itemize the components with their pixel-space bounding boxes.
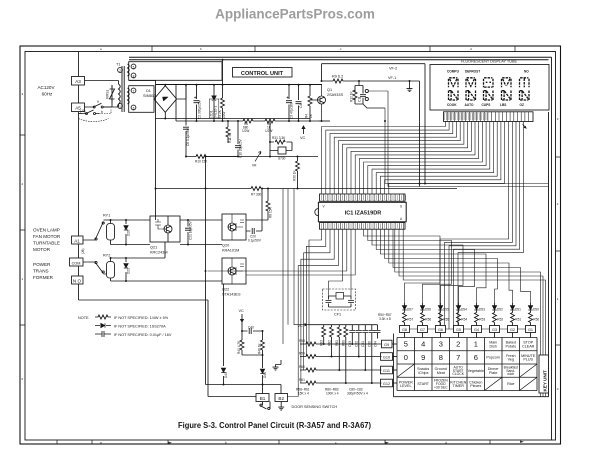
key strobe diode D53 [476, 303, 478, 313]
svg-text:BreakfastSand-wich: BreakfastSand-wich [504, 365, 518, 376]
svg-text:NO: NO [524, 70, 529, 74]
svg-text:NOTE.: NOTE. [78, 316, 90, 320]
svg-text:DinnerPlate: DinnerPlate [488, 367, 500, 375]
svg-text:POWER: POWER [33, 262, 51, 267]
border zone letters [22, 47, 559, 444]
key strobe resistor R52 [493, 313, 497, 323]
key strobe resistor R55 [439, 313, 443, 323]
svg-text:IF NOT SPECIFIED: 1/4W ± 5%: IF NOT SPECIFIED: 1/4W ± 5% [114, 316, 169, 320]
grid driver G7 [418, 326, 428, 333]
VC net arrow down [241, 314, 244, 331]
cap C4 [298, 85, 300, 122]
control unit boundary right double line [549, 57, 552, 440]
capacitor array C80-C83 [352, 325, 377, 383]
wire NO terminal routed to door switch net [79, 284, 209, 397]
svg-text:R12 1K: R12 1K [350, 90, 354, 102]
svg-text:ChickenPieces: ChickenPieces [469, 380, 482, 388]
svg-text:POWERLEVEL: POWERLEVEL [399, 380, 413, 388]
svg-text:IF NOT SPECIFIED: 0.01μF / 16: IF NOT SPECIFIED: 0.01μF / 16V [114, 333, 172, 337]
svg-text:R7 330: R7 330 [251, 193, 262, 197]
svg-text:KRA101M: KRA101M [222, 249, 239, 253]
svg-text:C2 330μ/25V: C2 330μ/25V [198, 99, 202, 119]
cap C10 20u/25V [237, 121, 239, 157]
svg-text:OZ: OZ [520, 103, 524, 107]
svg-text:R30 1K: R30 1K [293, 169, 297, 181]
svg-text:C6 0.1μ/56V: C6 0.1μ/56V [186, 127, 190, 146]
svg-text:C40: C40 [248, 326, 254, 330]
ground at VF1 right [409, 81, 411, 86]
svg-text:G4: G4 [474, 328, 479, 332]
svg-text:R50: R50 [533, 318, 539, 322]
svg-text:RY1: RY1 [103, 214, 110, 218]
svg-text:D54: D54 [461, 308, 467, 312]
left input bus wire [78, 52, 80, 237]
svg-text:D41: D41 [224, 372, 228, 378]
diode D41 [223, 284, 225, 385]
RY2 contact [83, 262, 107, 274]
svg-text:D55: D55 [443, 308, 449, 312]
diode D20 [125, 220, 127, 245]
svg-text:(J6): (J6) [81, 249, 85, 255]
key matrix blank diagonals [397, 364, 537, 391]
svg-text:(J1): (J1) [80, 109, 86, 113]
key strobe diode D51 [512, 303, 514, 313]
svg-text:R56: R56 [425, 318, 431, 322]
key strobe diode D55 [440, 303, 442, 313]
RY1 coil [107, 224, 115, 241]
resistor array R80-R83 [324, 325, 346, 383]
svg-text:2: 2 [22, 182, 24, 186]
svg-text:R11 51: R11 51 [228, 133, 232, 143]
svg-text:Rice: Rice [507, 382, 514, 386]
varistor WRS1 [110, 85, 115, 103]
terminal B1 [256, 394, 269, 402]
transistor Q1 2SA933S [318, 96, 326, 104]
svg-text:D51: D51 [515, 308, 521, 312]
key unit boundary [394, 334, 549, 397]
border zone arrow marks [168, 441, 524, 444]
sense row R59 [300, 356, 382, 358]
terminal B2 [275, 394, 288, 402]
svg-text:D50: D50 [533, 308, 539, 312]
svg-text:A1: A1 [74, 239, 80, 244]
svg-text:AUTOSTARTCLOCK: AUTOSTARTCLOCK [452, 365, 464, 376]
svg-text:4: 4 [421, 340, 425, 349]
RY2 coil [107, 262, 115, 279]
svg-text:C3 47μ/16V: C3 47μ/16V [290, 101, 294, 119]
svg-text:DEFROST: DEFROST [465, 70, 480, 74]
bridge rectifier D1 SIM810 [154, 86, 177, 113]
svg-text:MINUTEPLUS: MINUTEPLUS [521, 354, 536, 362]
pin circle 5 [131, 64, 136, 69]
svg-text:1: 1 [22, 277, 24, 281]
junction dots upper mid [222, 59, 427, 185]
terminal A3 [72, 77, 85, 86]
svg-text:COOK: COOK [447, 103, 457, 107]
VC bus line [308, 324, 378, 326]
svg-text:SIM810: SIM810 [143, 94, 156, 98]
svg-text:G6: G6 [438, 328, 443, 332]
svg-text:Vegetable: Vegetable [468, 369, 484, 373]
transformer terminal circle 1 [118, 104, 123, 109]
svg-text:C21 16μ/35V: C21 16μ/35V [189, 220, 193, 240]
grid driver G1 [526, 326, 536, 333]
junction wire to B terminals [206, 385, 282, 394]
grid driver G9 [382, 340, 393, 348]
C11 small component [362, 87, 364, 104]
svg-text:N O: N O [73, 279, 82, 284]
resistor R3 2K 1/2W [222, 60, 224, 121]
fluorescent display tube box [430, 65, 549, 111]
door switch ground [278, 405, 284, 411]
sheet inner border frame [25, 52, 556, 441]
capacitor array tiny labels [348, 341, 377, 347]
svg-text:8: 8 [439, 353, 443, 362]
grid driver G12 [381, 379, 393, 387]
sense row R60 [300, 369, 382, 371]
svg-text:AC120V: AC120V [37, 85, 55, 90]
transformer T1 primary winding [103, 81, 119, 108]
svg-text:V: V [323, 205, 326, 209]
terminal NO [72, 276, 84, 284]
svg-text:CONTROL UNIT: CONTROL UNIT [241, 71, 284, 77]
svg-text:2: 2 [456, 340, 460, 349]
grid driver leads [405, 323, 531, 338]
svg-text:Q21: Q21 [150, 246, 157, 250]
svg-text:R57: R57 [407, 318, 413, 322]
wire IC to CF1 resonator [329, 229, 352, 296]
svg-text:G1: G1 [528, 328, 533, 332]
svg-text:G9: G9 [384, 343, 389, 347]
svg-text:BakedPotato: BakedPotato [505, 341, 516, 349]
svg-text:1/2W: 1/2W [242, 129, 249, 133]
svg-text:COM: COM [72, 262, 81, 266]
svg-text:R80: R80 [342, 340, 346, 346]
svg-text:IF NOT SPECIFIED: 1SS270A: IF NOT SPECIFIED: 1SS270A [114, 325, 166, 329]
svg-text:STA143ES: STA143ES [222, 293, 241, 297]
wire from C11 group down right [355, 104, 385, 108]
bridge output wires [165, 85, 186, 119]
svg-text:B1: B1 [260, 396, 266, 401]
svg-text:S730: S730 [278, 157, 286, 161]
secondary box lower (rectifier winding) [129, 86, 154, 113]
terminal COM [70, 258, 84, 266]
svg-text:0: 0 [404, 353, 408, 362]
KEY UNIT label box [539, 355, 549, 393]
svg-text:330pF/50V x 4: 330pF/50V x 4 [347, 392, 368, 396]
wire VC feed down [283, 189, 308, 345]
svg-text:R9 6.2: R9 6.2 [332, 75, 343, 79]
svg-text:AppliancePartsPros.com: AppliancePartsPros.com [215, 7, 375, 22]
svg-text:6: 6 [133, 106, 135, 110]
key strobe resistor R57 [403, 313, 407, 323]
svg-text:d: d [470, 47, 472, 51]
driver Q20 KRA101M [222, 214, 246, 240]
svg-text:2SA933S: 2SA933S [327, 93, 344, 97]
transformer T1 core [122, 66, 124, 112]
wire door net to B1 [208, 396, 256, 398]
svg-text:60Hz: 60Hz [42, 92, 53, 97]
svg-text:7: 7 [456, 353, 460, 362]
svg-text:Figure S-3. Control Panel Circ: Figure S-3. Control Panel Circuit (R-3A5… [178, 421, 371, 430]
CONTROL UNIT label box [233, 68, 293, 78]
svg-text:B2: B2 [278, 396, 284, 401]
row junction dots [323, 343, 373, 384]
cap C6 0.1u/56V [185, 85, 187, 157]
wire bundle IC bottom to key diode columns [364, 229, 531, 303]
vertical x176 [175, 85, 177, 122]
svg-text:1: 1 [474, 340, 478, 349]
border zone ticks bottom [57, 440, 490, 444]
svg-text:Snacks/Chips: Snacks/Chips [417, 367, 429, 375]
svg-text:G10: G10 [383, 356, 390, 360]
svg-text:R58: R58 [299, 339, 305, 343]
svg-text:FLUORESCENT DISPLAY TUBE: FLUORESCENT DISPLAY TUBE [461, 60, 518, 64]
RY1 contact [83, 220, 150, 240]
vcc rail y121 [176, 120, 318, 122]
control unit boundary top double line [129, 57, 552, 60]
svg-text:R8 15K: R8 15K [269, 206, 273, 218]
IC bottom pin strip [320, 223, 406, 230]
border zone ticks right [556, 157, 561, 345]
grid driver G8 [400, 326, 410, 333]
cap C2 330u/25V [196, 85, 198, 122]
terminal A5 [72, 103, 85, 112]
wire bundle IC bottom left to sense rows [287, 229, 338, 396]
svg-text:R82: R82 [327, 340, 331, 346]
digit segments row 2 [449, 91, 530, 101]
svg-text:VC: VC [298, 324, 304, 328]
svg-text:LBS: LBS [500, 103, 506, 107]
CF1 crystal element [336, 293, 344, 300]
svg-text:R81: R81 [335, 340, 339, 346]
dc minus rail [156, 118, 311, 120]
svg-text:8: 8 [133, 74, 135, 78]
svg-text:START: START [417, 382, 429, 386]
cap C20 0.1u/50V [246, 189, 262, 232]
VF-1 wire [322, 81, 420, 187]
svg-text:G5: G5 [456, 328, 461, 332]
key strobe diode D54 [458, 303, 460, 313]
key strobe diode D56 [422, 303, 424, 313]
display connector strip [444, 112, 534, 122]
svg-text:MainDish: MainDish [489, 341, 497, 349]
resistor R5 1K 1/2W in rail [265, 119, 275, 123]
key strobe resistor R53 [475, 313, 479, 323]
key strobe resistor R54 [457, 313, 461, 323]
svg-text:HZ1b-1: HZ1b-1 [214, 106, 218, 117]
svg-text:D21: D21 [127, 268, 131, 274]
svg-text:6: 6 [474, 353, 478, 362]
svg-text:TURNTABLE: TURNTABLE [33, 241, 60, 246]
svg-text:0: 0 [557, 387, 559, 391]
svg-text:G11: G11 [383, 369, 390, 373]
grid driver G10 [381, 353, 393, 361]
svg-text:Q20: Q20 [222, 244, 229, 248]
svg-text:1: 1 [557, 297, 559, 301]
svg-text:R55: R55 [443, 318, 449, 322]
key strobe resistor R50 [529, 313, 533, 323]
driver Q21 KRC243M [150, 216, 180, 242]
key matrix grid [397, 338, 537, 391]
cap C21 16u/35V [180, 220, 222, 245]
svg-text:VF-1: VF-1 [388, 76, 396, 80]
wire A5 to interlock switches [85, 85, 113, 107]
svg-text:FAN MOTOR: FAN MOTOR [33, 234, 61, 239]
group value labels [296, 388, 368, 396]
svg-text:9: 9 [421, 353, 425, 362]
svg-text:TRANS: TRANS [33, 269, 49, 274]
ceramic resonator CF1 box [323, 289, 356, 310]
svg-text:R54: R54 [461, 318, 467, 322]
svg-text:COMPU: COMPU [447, 70, 460, 74]
svg-text:R53: R53 [479, 318, 485, 322]
svg-text:WRS1: WRS1 [106, 90, 110, 99]
digit segments row 1 [449, 78, 530, 88]
pin circle 6 [131, 105, 136, 110]
svg-text:R61: R61 [299, 378, 305, 382]
svg-text:1/2W: 1/2W [265, 129, 272, 133]
IC top pin numbers clutter [322, 195, 406, 200]
wire bundle display right pins down to key strobe row [440, 122, 523, 330]
svg-text:D52: D52 [497, 308, 503, 312]
svg-text:2: 2 [119, 69, 121, 73]
resistor R11 51 [227, 121, 229, 143]
terminal A1 [72, 236, 84, 244]
wire bundle display connector to IC top [322, 122, 505, 195]
svg-text:VC: VC [300, 136, 306, 140]
svg-text:R83: R83 [320, 340, 324, 346]
svg-text:5: 5 [404, 340, 408, 349]
pin circle 7 [131, 88, 136, 93]
svg-text:FreshVeg: FreshVeg [506, 354, 515, 362]
svg-text:C4: C4 [299, 104, 303, 108]
ground stub mid [276, 360, 282, 365]
svg-text:CUPS: CUPS [482, 103, 491, 107]
resistor array tiny labels [320, 340, 346, 346]
key strobe resistor R56 [421, 313, 425, 323]
IC bottom pin numbers clutter [322, 224, 402, 229]
svg-text:D1: D1 [146, 89, 151, 93]
svg-text:G8: G8 [402, 328, 407, 332]
svg-text:FORMER: FORMER [33, 275, 54, 280]
svg-text:OVEN LAMP: OVEN LAMP [33, 228, 60, 233]
svg-text:D20: D20 [127, 230, 131, 236]
svg-text:VR: VR [252, 164, 257, 168]
resistor R30 1K below rail [297, 157, 299, 189]
wires VF filament lines across to right boundary [369, 91, 549, 187]
svg-text:IC1 IZA519DR: IC1 IZA519DR [345, 211, 382, 217]
vertical x155.5 left bus of control unit [155, 81, 157, 221]
svg-text:KEY UNIT: KEY UNIT [542, 370, 547, 392]
svg-text:C11: C11 [358, 96, 362, 102]
wire A3 to transformer primary [85, 80, 156, 82]
wire bundle IC bottom to right edge key unit [395, 229, 546, 397]
diode D40 [262, 366, 264, 385]
dc plus rail (y84.5) [156, 84, 323, 86]
svg-text:G2: G2 [510, 328, 515, 332]
svg-text:0: 0 [22, 377, 24, 381]
svg-text:VF-2: VF-2 [389, 67, 397, 71]
svg-text:VC: VC [239, 309, 245, 313]
cap C3 47u/16V [288, 85, 290, 122]
key strobe diode D52 [494, 303, 496, 313]
transformer secondary windings [128, 64, 130, 104]
svg-text:2: 2 [557, 202, 559, 206]
resistor R6 680 1/2W in rail [243, 119, 253, 123]
svg-text:CF1: CF1 [334, 313, 341, 317]
rail y160 [206, 156, 319, 158]
IC1 IZA519DR body [318, 202, 406, 222]
svg-text:A: A [400, 217, 403, 221]
secondary box upper (filament winding) [129, 62, 222, 81]
test point circles [365, 89, 368, 92]
zener ZD1 HZ1b-1 [213, 85, 215, 122]
R12 small component [354, 87, 356, 104]
svg-text:R52: R52 [497, 318, 503, 322]
svg-text:1: 1 [119, 105, 121, 109]
svg-text:R41 4.7K: R41 4.7K [237, 340, 241, 354]
pin circle 8 [131, 73, 136, 78]
svg-text:3.3K x 8: 3.3K x 8 [379, 317, 391, 321]
svg-text:5: 5 [133, 65, 135, 69]
transformer terminal circle 2 [118, 68, 123, 73]
down arrow marker below connector [523, 124, 527, 129]
CF1 caps [326, 301, 332, 303]
svg-text:GroundMeat: GroundMeat [435, 367, 447, 375]
driver Q22 STA143ES [222, 258, 246, 284]
svg-text:Popcorn: Popcorn [486, 356, 500, 360]
svg-text:D53: D53 [479, 308, 485, 312]
svg-text:MOTOR: MOTOR [33, 247, 51, 252]
svg-text:STOPCLEAR: STOPCLEAR [522, 341, 535, 349]
svg-text:R60: R60 [299, 365, 305, 369]
svg-text:DOOR SENSING SWITCH: DOOR SENSING SWITCH [292, 405, 338, 409]
grid driver G6 [436, 326, 446, 333]
left vertical wire x205.5 [205, 157, 207, 385]
sense row R58 [300, 343, 382, 345]
junction dots relay area [110, 156, 299, 283]
svg-text:D56: D56 [425, 308, 431, 312]
VR arrow symbol on y160 rail [255, 152, 261, 162]
svg-text:3: 3 [439, 340, 443, 349]
svg-text:T1: T1 [116, 63, 120, 67]
svg-text:S: S [400, 205, 402, 209]
svg-text:1/2W: 1/2W [222, 112, 226, 119]
grid driver G3 [490, 326, 500, 333]
vcc rail continue [318, 120, 330, 122]
key strobe resistor R51 [511, 313, 515, 323]
wire IC left to Q20 drive [208, 229, 356, 275]
resistor R10 15K [186, 156, 238, 158]
svg-text:a: a [100, 47, 102, 51]
sheet outer border frame [20, 46, 561, 444]
svg-text:b: b [200, 47, 202, 51]
resistor R7 330 rail [156, 188, 458, 190]
S730 pot box [278, 147, 286, 154]
svg-text:R31 3.3K: R31 3.3K [272, 136, 286, 140]
svg-text:C10 20μ/25V: C10 20μ/25V [239, 138, 243, 158]
svg-text:R59: R59 [299, 352, 305, 356]
svg-text:15K x 4: 15K x 4 [298, 392, 309, 396]
svg-text:a: a [97, 100, 99, 104]
svg-text:D57: D57 [407, 308, 413, 312]
svg-text:FROZENFOOD+30 SEC: FROZENFOOD+30 SEC [434, 379, 448, 390]
key strobe diode D50 [530, 303, 532, 313]
key strobe diode D57 [404, 303, 406, 313]
svg-text:KITCHENTIMER: KITCHENTIMER [450, 380, 467, 388]
rail junction dots y160 [269, 141, 299, 158]
